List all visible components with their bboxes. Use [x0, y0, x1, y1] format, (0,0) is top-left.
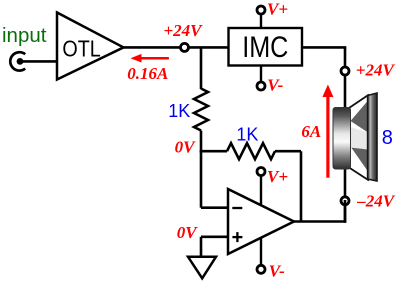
op-amp V+ stub — [260, 175, 262, 205]
wire feedback down to output — [300, 151, 303, 221]
speaker cone mid band — [350, 127, 368, 150]
svg-text:IMC: IMC — [242, 30, 288, 64]
IMC V+ terminal circle — [257, 6, 265, 14]
node -24V — [341, 197, 349, 205]
svg-text:V+: V+ — [267, 0, 288, 19]
svg-text:input: input — [2, 24, 47, 47]
speaker LS1 — [333, 93, 393, 181]
svg-text:V+: V+ — [267, 167, 288, 186]
wire to op-amp inverting input — [201, 206, 228, 209]
resistor R2 (1K horizontal feedback) — [227, 143, 275, 159]
speaker flange — [368, 93, 377, 181]
svg-text:0V: 0V — [175, 137, 197, 156]
node +24V (right) — [341, 67, 349, 75]
svg-text:6A: 6A — [301, 122, 321, 141]
input connector J1 — [10, 52, 25, 70]
ground stub — [200, 237, 203, 257]
wire 0V to non-inverting input — [201, 236, 228, 239]
wire node down to inverting input — [200, 151, 203, 208]
speaker cone top edge line — [349, 95, 369, 109]
svg-text:–24V: –24V — [356, 192, 396, 211]
op-amp U2 — [228, 189, 294, 254]
wire node to R2 — [200, 150, 227, 153]
wire corner down to speaker — [344, 47, 347, 110]
wire input to OTL — [22, 60, 57, 63]
speaker magnet cylinder — [333, 108, 351, 170]
wire speaker bottom down — [344, 168, 347, 222]
resistor R1 (1K vertical) — [194, 89, 208, 131]
svg-text:1K: 1K — [236, 125, 258, 145]
wire R1 to node 0V — [200, 131, 203, 153]
svg-text:V-: V- — [267, 75, 283, 94]
speaker cone lower web — [351, 147, 369, 172]
amplifier OTL — [57, 13, 124, 80]
op-amp V+ terminal circle — [257, 168, 265, 176]
ground symbol — [188, 257, 216, 279]
op-amp V- terminal circle — [257, 265, 265, 273]
minus sign (inverting input) — [232, 207, 242, 209]
svg-text:0V: 0V — [177, 223, 199, 242]
op-amp V- stub — [260, 238, 262, 266]
IMC V- stub — [260, 66, 262, 83]
node +24V (open circle on main wire) — [181, 43, 189, 51]
box U1 IMC — [229, 28, 303, 66]
svg-text:8: 8 — [382, 127, 393, 149]
wire op-amp output — [294, 220, 346, 223]
current arrow 6A — [322, 85, 333, 178]
svg-text:OTL: OTL — [62, 35, 100, 62]
IMC V- terminal circle — [257, 82, 265, 90]
svg-text:V-: V- — [269, 261, 285, 280]
wire OTL output to IMC — [124, 46, 229, 49]
plus sign (non-inverting input) — [232, 236, 242, 238]
speaker cone upper web — [351, 101, 369, 133]
current arrow 0.16A — [131, 54, 169, 63]
svg-text:1K: 1K — [168, 101, 190, 121]
svg-text:0.16A: 0.16A — [127, 64, 168, 83]
wire R2 to feedback corner — [275, 150, 301, 153]
wire IMC right to corner — [302, 46, 346, 49]
IMC V+ stub — [260, 14, 262, 28]
speaker cone bottom edge line — [349, 168, 369, 181]
svg-text:+24V: +24V — [356, 60, 396, 79]
wire junction drop to R1 — [200, 47, 203, 89]
svg-text:+24V: +24V — [164, 21, 204, 40]
